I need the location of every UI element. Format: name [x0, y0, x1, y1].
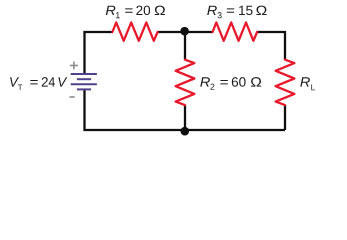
resistor RL: [276, 60, 295, 105]
wire: RL bottom lead: [284, 105, 286, 130]
resistor R3: [213, 23, 258, 41]
node bottom junction: [181, 127, 190, 136]
battery VT plate long lower: [71, 83, 97, 85]
label RL: [300, 77, 315, 90]
label R3 = 15 ohm: [207, 6, 266, 19]
resistor R2: [176, 60, 195, 105]
wire: between R1 and R3 through top node: [158, 31, 213, 33]
battery plus sign: [70, 62, 78, 70]
resistor R1: [112, 23, 157, 41]
label R2 = 60 ohm: [200, 77, 261, 90]
node top junction: [180, 27, 189, 36]
battery VT plate long top: [71, 73, 97, 75]
label VT = 24 V: [10, 77, 67, 90]
wire: R2 bottom lead to bottom node: [184, 105, 186, 131]
battery VT plate short upper: [77, 78, 91, 80]
wire: R3 to top-right corner down to RL: [257, 32, 285, 60]
wire: left vertical from top corner to battery + top wire to R1: [85, 32, 113, 74]
label R1 = 20 ohm: [106, 6, 165, 19]
battery minus sign: [70, 96, 75, 98]
battery VT plate short bottom: [77, 88, 91, 90]
wire: battery bottom down and bottom wire to right: [85, 90, 286, 131]
wire: top node down to R2: [184, 32, 186, 60]
